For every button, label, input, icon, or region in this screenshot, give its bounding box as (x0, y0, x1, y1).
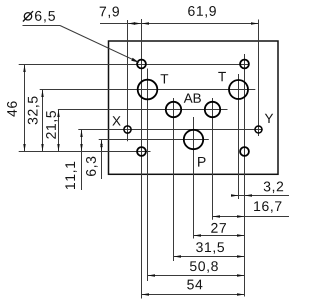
label 27 (211, 223, 226, 233)
wire: A B port row centerline (58, 109, 228, 111)
label 46 rotated (7, 101, 17, 116)
port Y (255, 126, 262, 133)
dimension 16,7 line (213, 215, 290, 217)
label port Y (265, 114, 273, 123)
label diameter 6,5 (23, 11, 55, 23)
dimension 27 line (194, 234, 245, 236)
wire: bottom reference row centerline (19, 151, 151, 153)
mounting hole top-right (240, 60, 249, 69)
mounting hole bottom-right (240, 147, 249, 156)
wire: T port row centerline (40, 89, 256, 91)
wire: right bolt column centerline (244, 54, 246, 297)
dimension 21,5 line (57, 110, 59, 152)
wire: left bolt column centerline (141, 19, 143, 299)
label 32,5 rotated (28, 96, 40, 124)
wire: B column extension line (212, 98, 214, 220)
dimension 54 line (142, 293, 245, 295)
label 50,8 (190, 261, 218, 273)
port X (124, 126, 131, 133)
label port B (194, 94, 201, 103)
label port T1 (161, 74, 169, 83)
dimension 6,3 line (100, 140, 102, 180)
wire: T1 column extension line (147, 69, 149, 282)
dimension 11,1 line (80, 130, 82, 191)
arrow 61,9 right (251, 22, 259, 24)
arrow 7,9 right and 61,9 left (134, 22, 149, 24)
dimension 3,2 line (231, 194, 289, 196)
wire: T2 column extension line (238, 74, 240, 199)
dimension 32,5 line (41, 90, 43, 152)
label port P (198, 157, 205, 167)
wire: top dimension line for 7,9 and 61,9 (100, 23, 259, 25)
label port A (184, 94, 193, 103)
label 11,1 rotated (65, 162, 76, 189)
label 21,5 rotated (46, 111, 58, 139)
mounting hole bottom-left (137, 147, 146, 156)
label port T2 (218, 72, 226, 81)
label 3,2 (264, 182, 283, 194)
leader line for diameter 6,5 label (23, 26, 140, 63)
port T2 (229, 80, 248, 99)
dimension 50,8 line (148, 274, 245, 276)
wire: X Y port row centerline (78, 129, 262, 131)
label 61,9 (188, 6, 216, 18)
dimension 31,5 line (174, 255, 245, 257)
port A (166, 102, 181, 117)
port T1 (138, 80, 158, 100)
label 7,9 (100, 7, 119, 19)
wire: A column extension line (173, 98, 175, 261)
valve body outline (109, 41, 279, 174)
wire: X column extension line (127, 20, 129, 141)
dimension 46 line (23, 65, 25, 152)
wire: P column extension line (193, 117, 195, 239)
label 6,3 rotated (86, 157, 98, 176)
wire: Y column extension line (258, 20, 260, 137)
arrow 7,9 left (128, 22, 136, 24)
wire: P port row centerline (99, 139, 209, 141)
wire: bolt hole top row centerline (19, 64, 250, 66)
label 31,5 (196, 242, 224, 254)
label port X (112, 116, 120, 125)
label 16,7 (254, 201, 281, 213)
label 54 (187, 280, 202, 290)
port B (205, 102, 220, 117)
port P (184, 130, 203, 149)
mounting hole top-left (137, 60, 146, 69)
